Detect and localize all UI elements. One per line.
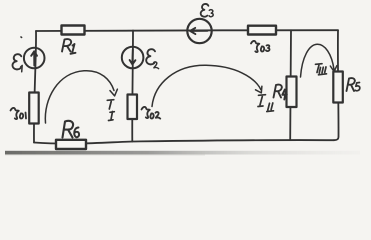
label E2 bbox=[146, 49, 155, 64]
resistor R6 bbox=[56, 140, 86, 149]
scan band bottom faint lower bbox=[5, 154, 205, 155]
loop arrow I_II head bbox=[256, 86, 262, 93]
resistor R5 bbox=[333, 72, 343, 103]
source E3 arrow bbox=[190, 28, 208, 34]
label E2 sub 2 bbox=[154, 62, 159, 69]
wire bottom bbox=[34, 140, 334, 144]
loop arrow I_I arc bbox=[45, 71, 114, 123]
label I_III bbox=[316, 64, 327, 75]
label I_II bbox=[258, 95, 274, 112]
speck top-left bbox=[20, 36, 23, 38]
label E3 bbox=[201, 4, 209, 17]
source E2 circle bbox=[122, 47, 144, 69]
label R5 bbox=[347, 78, 360, 91]
source E2 arrow bbox=[130, 50, 136, 65]
label E1 bbox=[13, 54, 22, 69]
wire left branch bbox=[34, 31, 36, 143]
resistor R4 bbox=[287, 77, 297, 108]
scan band bottom bbox=[5, 151, 360, 155]
resistor r02 bbox=[128, 95, 138, 120]
label r02 bbox=[142, 107, 161, 119]
label R1 bbox=[62, 39, 76, 54]
loop arrow I_I head bbox=[110, 89, 117, 96]
source E3 circle bbox=[187, 19, 211, 43]
wire right branch R5 bbox=[334, 30, 339, 140]
label R6 bbox=[63, 121, 80, 138]
resistor R1 bbox=[62, 26, 85, 35]
resistor r01 bbox=[29, 93, 39, 124]
paper background bbox=[0, 0, 371, 156]
label E3 sub 3 bbox=[209, 10, 213, 17]
label I_I bbox=[107, 100, 114, 121]
label r01 bbox=[11, 108, 27, 119]
wire top bbox=[36, 29, 338, 32]
label R4 bbox=[274, 85, 287, 100]
source E1 circle bbox=[24, 48, 45, 69]
source E1 arrow bbox=[31, 51, 37, 65]
label r03 bbox=[251, 41, 269, 52]
loop arrow I_II arc bbox=[152, 65, 261, 106]
loop arrow I_III head bbox=[330, 66, 337, 72]
loop arrow I_III arc bbox=[301, 44, 335, 77]
label E1 sub 1 bbox=[21, 65, 23, 71]
wire R4 branch bbox=[289, 30, 292, 140]
wire E2 branch bbox=[131, 31, 134, 142]
resistor r03 bbox=[248, 26, 276, 35]
